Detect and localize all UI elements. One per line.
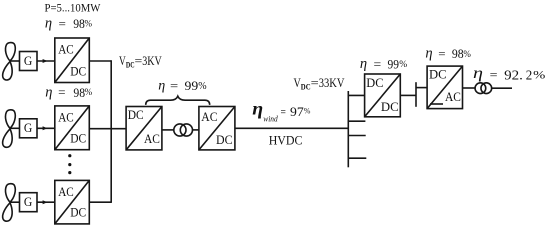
wire G1 to converter U1 with arrow xyxy=(37,60,55,62)
wire U4 to transformer T1 xyxy=(162,129,174,131)
wind turbine WT1 blades xyxy=(3,43,16,80)
svg-text:AC: AC xyxy=(58,185,73,199)
svg-text:=: = xyxy=(374,56,382,71)
svg-text:AC: AC xyxy=(201,110,217,124)
converter U2 AC/DC xyxy=(55,106,90,150)
wind turbine WT3 blades xyxy=(3,184,16,221)
wire G2 to converter U2 with arrow xyxy=(37,127,55,129)
svg-text:2: 2 xyxy=(526,68,533,83)
HVDC bus vertical xyxy=(347,91,349,167)
svg-text:η: η xyxy=(45,16,52,32)
efficiency label eta=98% over U7 xyxy=(425,46,471,62)
wind turbine WT2 blades xyxy=(3,110,16,147)
svg-text:%: % xyxy=(85,18,93,28)
efficiency label eta=99% over U4/U5 xyxy=(158,78,206,94)
wire T2 to grid xyxy=(492,87,512,89)
wire turbine2 hub to G2 xyxy=(10,127,20,129)
svg-text:92.: 92. xyxy=(504,68,523,83)
wire U6 to junction bar xyxy=(400,94,416,96)
HVDC transmission line wire U5 to HVDC bus xyxy=(235,127,348,129)
efficiency label eta=92.2% at grid xyxy=(473,65,545,83)
svg-text:DC: DC xyxy=(70,132,86,146)
svg-text:98: 98 xyxy=(452,46,464,61)
svg-text:DC: DC xyxy=(216,133,233,147)
svg-text:G: G xyxy=(24,195,32,209)
svg-text:=: = xyxy=(438,46,445,61)
svg-text:DC: DC xyxy=(366,76,383,90)
wire T1 to converter U5 xyxy=(193,129,199,131)
svg-text:3KV: 3KV xyxy=(142,53,162,68)
svg-text:99: 99 xyxy=(185,78,199,93)
svg-text:%: % xyxy=(533,68,545,82)
bus feeder tick 3 xyxy=(348,157,366,159)
svg-text:η: η xyxy=(360,56,367,72)
svg-text:DC: DC xyxy=(126,59,135,69)
efficiency label eta wind = 97% xyxy=(252,99,310,124)
svg-text:98: 98 xyxy=(73,16,85,31)
svg-text:η: η xyxy=(252,99,263,119)
converter U6 DC/DC xyxy=(365,74,401,117)
converter U4 DC/AC xyxy=(126,107,162,150)
svg-text:DC: DC xyxy=(70,206,86,220)
wire G3 to converter U3 with arrow xyxy=(37,201,55,203)
converter U5 AC/DC xyxy=(199,107,235,150)
svg-text:=: = xyxy=(490,67,498,82)
converter U7 DC/AC xyxy=(427,66,462,109)
svg-text:98: 98 xyxy=(73,85,85,100)
generator G2 xyxy=(20,119,38,138)
wire U3 output to DC bus xyxy=(89,201,111,203)
svg-text:AC: AC xyxy=(445,90,461,104)
svg-text:P=5...10MW: P=5...10MW xyxy=(45,1,102,15)
svg-text:%: % xyxy=(85,87,93,97)
svg-text:AC: AC xyxy=(58,42,73,56)
svg-text:DC: DC xyxy=(429,68,447,82)
svg-text:=: = xyxy=(135,53,143,68)
ellipsis dots between WT2 and WT3 xyxy=(68,154,71,174)
svg-text:%: % xyxy=(463,49,471,59)
svg-text:97: 97 xyxy=(290,104,304,119)
svg-text:=: = xyxy=(59,16,66,31)
svg-text:DC: DC xyxy=(128,108,144,122)
bus feeder tick 2 xyxy=(348,135,365,137)
wire turbine1 hub to G1 xyxy=(10,60,20,62)
efficiency label eta=98% row1 xyxy=(45,16,93,32)
svg-text:99: 99 xyxy=(388,57,400,72)
svg-text:η: η xyxy=(425,46,432,62)
svg-text:DC: DC xyxy=(70,64,86,78)
svg-text:G: G xyxy=(24,54,32,68)
efficiency label eta=98% row2 xyxy=(45,85,92,101)
junction bar node xyxy=(415,82,417,107)
svg-text:%: % xyxy=(399,60,407,70)
svg-text:wind: wind xyxy=(263,115,278,124)
label VDC=3KV xyxy=(119,53,162,69)
svg-text:AC: AC xyxy=(58,110,73,124)
label VDC=33KV xyxy=(294,75,345,91)
svg-text:η: η xyxy=(473,65,483,82)
svg-text:%: % xyxy=(198,81,206,92)
svg-text:=: = xyxy=(311,75,319,90)
converter U1 AC/DC xyxy=(55,38,90,83)
svg-text:η: η xyxy=(45,85,52,101)
svg-text:DC: DC xyxy=(301,81,311,91)
svg-text:G: G xyxy=(24,121,32,135)
svg-text:=: = xyxy=(281,105,287,119)
brace over U4/U5 xyxy=(146,96,210,105)
transformer T1 xyxy=(174,124,193,136)
wire U7 to transformer T2 xyxy=(463,87,476,89)
wire HVDC bus to U6 xyxy=(348,94,364,96)
svg-text:DC: DC xyxy=(381,100,399,114)
wire U1 output to DC bus xyxy=(89,60,111,62)
svg-text:%: % xyxy=(304,107,311,116)
svg-text:=: = xyxy=(58,85,65,100)
transformer T2 xyxy=(475,83,492,94)
svg-text:AC: AC xyxy=(144,132,160,146)
efficiency label eta=99% over U6 xyxy=(360,56,407,72)
svg-text:=: = xyxy=(170,78,178,93)
generator G3 xyxy=(20,193,38,212)
wire turbine3 hub to G3 xyxy=(10,201,20,203)
wire junction bar to U7 xyxy=(416,87,427,89)
generator G1 xyxy=(20,52,38,71)
wire U2 output through DC bus to U4 xyxy=(89,128,126,130)
svg-text:33KV: 33KV xyxy=(319,75,345,90)
bus feeder tick 1 xyxy=(348,120,365,122)
svg-text:HVDC: HVDC xyxy=(269,134,303,148)
converter U3 AC/DC xyxy=(55,180,90,224)
svg-text:η: η xyxy=(158,79,165,94)
DC collection bus vertical xyxy=(110,60,112,203)
